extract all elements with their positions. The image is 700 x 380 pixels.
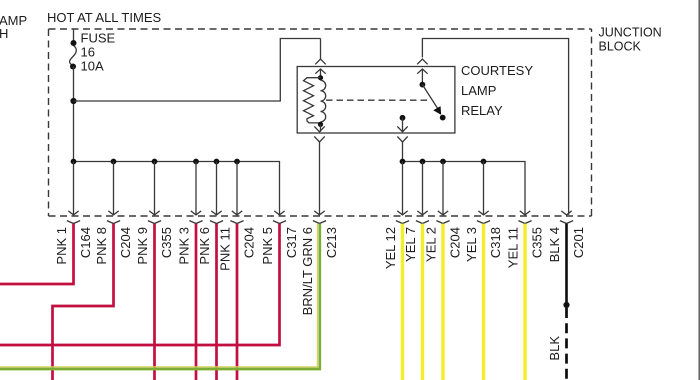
svg-text:C213: C213 xyxy=(324,227,339,258)
svg-text:BLOCK: BLOCK xyxy=(599,40,642,54)
wire PNK 9 xyxy=(153,224,156,380)
fuse 16 10A xyxy=(73,29,75,42)
wire drop to connector x=196.0 xyxy=(195,162,197,215)
wire YEL x=422.5 xyxy=(421,224,424,380)
connector symbol x=443.0 xyxy=(438,211,448,215)
svg-text:YEL 3: YEL 3 xyxy=(464,227,479,262)
relay box outline U1 xyxy=(297,67,455,134)
wire PNK 5 xyxy=(0,224,280,345)
svg-text:COURTESY: COURTESY xyxy=(461,63,533,78)
svg-text:FUSE: FUSE xyxy=(81,31,116,46)
wire PNK 6 xyxy=(215,224,218,380)
connector symbol x=422.5 xyxy=(417,211,427,215)
wire drop to connector x=113.5 xyxy=(113,162,115,215)
svg-text:10A: 10A xyxy=(81,59,104,74)
wire YEL x=525.0 xyxy=(523,224,526,380)
svg-text:YEL 7: YEL 7 xyxy=(403,227,418,262)
wire drop to connector x=154.5 xyxy=(154,162,156,215)
relay armature linkage (dashed) xyxy=(326,99,431,101)
connector symbol x=319.5 xyxy=(314,211,324,215)
wire drop to connector x=443.0 xyxy=(442,162,444,215)
svg-text:C204: C204 xyxy=(241,227,256,258)
bus junction dot x=113.5 xyxy=(111,159,117,165)
image right border line xyxy=(698,0,700,380)
wire BRN/LT GRN (brown stripe) xyxy=(0,224,317,367)
bus junction dot x=483.5 xyxy=(481,159,487,165)
wire drop to connector x=483.5 xyxy=(483,162,485,215)
svg-text:PNK 5: PNK 5 xyxy=(260,227,275,265)
svg-text:PNK 6: PNK 6 xyxy=(197,227,212,265)
connector symbol x=237.0 xyxy=(232,211,242,215)
relay switch blade with arrowhead xyxy=(422,85,437,109)
relay coil winding xyxy=(321,80,326,122)
connector symbol x=154.5 xyxy=(149,211,159,215)
relay common contact xyxy=(400,115,406,121)
wire relay common down through box xyxy=(402,118,404,132)
wire PNK 11 xyxy=(236,224,239,380)
wire relay switch feed to BLK line (top right) xyxy=(422,39,568,215)
connector symbol x=113.5 xyxy=(108,211,118,215)
svg-text:BRN/LT GRN 6: BRN/LT GRN 6 xyxy=(300,227,315,315)
svg-text:YEL 2: YEL 2 xyxy=(423,227,438,262)
svg-text:C317: C317 xyxy=(284,227,299,258)
svg-text:C204: C204 xyxy=(118,227,133,258)
wire drop to connector x=422.5 xyxy=(422,162,424,215)
wire PNK 1 xyxy=(0,224,74,284)
wire drop to connector x=237.0 xyxy=(236,162,238,215)
svg-text:BLK: BLK xyxy=(547,336,562,361)
svg-text:C355: C355 xyxy=(159,227,174,258)
bus junction dot x=422.5 xyxy=(420,159,426,165)
yellow output bus row xyxy=(403,162,526,215)
svg-text:C318: C318 xyxy=(488,227,503,258)
svg-text:PNK 11: PNK 11 xyxy=(217,227,232,271)
wire drop to connector x=402.5 xyxy=(402,162,404,215)
svg-text:PNK 9: PNK 9 xyxy=(135,227,150,265)
svg-text:YEL 12: YEL 12 xyxy=(383,227,398,269)
wire BRN/LT GRN (green part) xyxy=(0,224,320,369)
junction block dashed border xyxy=(49,28,592,30)
svg-text:H: H xyxy=(0,26,8,41)
svg-text:C204: C204 xyxy=(447,227,462,258)
pink feed bus row xyxy=(74,162,280,215)
relay stationary contact (NO, unwired) xyxy=(440,115,446,121)
bus junction dot x=237.0 xyxy=(234,159,240,165)
bus junction dot x=196.0 xyxy=(193,159,199,165)
connector symbol x=483.5 xyxy=(478,211,488,215)
svg-text:PNK 8: PNK 8 xyxy=(94,227,109,265)
wire drop to connector x=73.5 xyxy=(73,162,75,215)
bus junction dot x=216.5 xyxy=(214,159,220,165)
wire BLK dashed continuation xyxy=(565,308,568,380)
splice dot on BLK wire xyxy=(563,302,569,308)
wire PNK 8 xyxy=(53,224,114,380)
connector symbol x=73.5 xyxy=(68,211,78,215)
connector symbol x=525.0 xyxy=(520,211,530,215)
svg-text:RELAY: RELAY xyxy=(461,103,503,118)
relay coil top pin crossing xyxy=(315,59,325,64)
wire YEL x=483.5 xyxy=(482,224,485,380)
svg-text:C201: C201 xyxy=(571,227,586,258)
svg-text:PNK 1: PNK 1 xyxy=(54,227,69,265)
connector symbol x=279.5 xyxy=(274,211,284,215)
wire YEL x=402.5 xyxy=(401,224,404,380)
svg-text:PNK 3: PNK 3 xyxy=(176,227,191,265)
connector symbol x=216.5 xyxy=(211,211,221,215)
wire fuse output down to junction dot xyxy=(73,67,75,162)
svg-text:YEL 11: YEL 11 xyxy=(505,227,520,268)
svg-text:16: 16 xyxy=(81,45,95,60)
bus junction dot x=73.5 xyxy=(71,159,77,165)
connector symbol x=196.0 xyxy=(191,211,201,215)
bus junction dot x=154.5 xyxy=(152,159,158,165)
relay coil parallel resistor xyxy=(304,78,321,123)
relay switch pivot pin xyxy=(417,59,427,64)
bus junction dot x=402.5 xyxy=(400,159,406,165)
svg-text:C355: C355 xyxy=(529,227,544,258)
wire drop to connector x=216.5 xyxy=(216,162,218,215)
svg-text:JUNCTION: JUNCTION xyxy=(599,26,662,40)
wire BLK solid part xyxy=(565,224,568,305)
wire relay coil low side down through box xyxy=(320,124,322,131)
svg-text:C164: C164 xyxy=(78,227,93,258)
wire feed to relay coil (up and over) xyxy=(74,39,321,102)
bus junction dot x=443.0 xyxy=(440,159,446,165)
connector symbol x=402.5 xyxy=(397,211,407,215)
svg-text:HOT AT ALL TIMES: HOT AT ALL TIMES xyxy=(47,10,161,25)
svg-text:BLK 4: BLK 4 xyxy=(547,227,562,262)
wire PNK 3 xyxy=(195,224,198,380)
wire YEL x=443.0 xyxy=(441,224,444,380)
connector symbol x=566.5 xyxy=(561,211,571,215)
svg-text:LAMP: LAMP xyxy=(461,83,496,98)
